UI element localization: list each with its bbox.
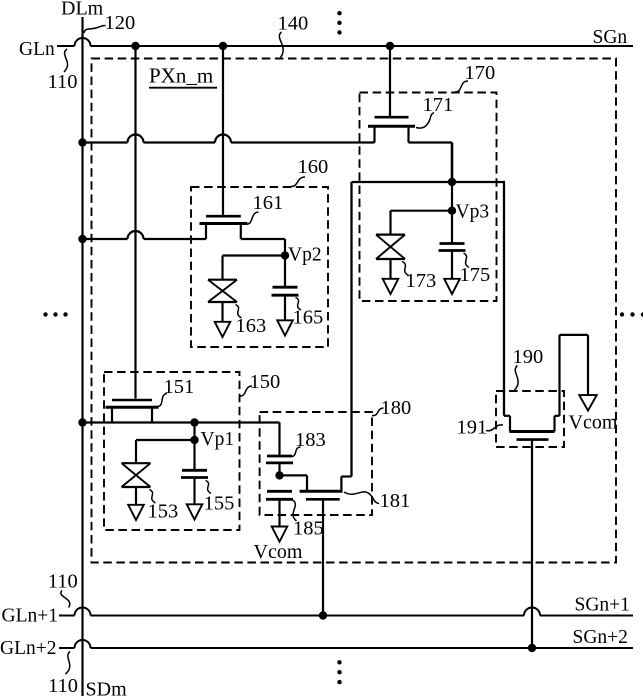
svg-text:110: 110 bbox=[48, 675, 78, 696]
svg-text:153: 153 bbox=[148, 501, 179, 523]
svg-text:Vcom: Vcom bbox=[569, 412, 618, 434]
svg-text:110: 110 bbox=[48, 71, 78, 93]
svg-text:161: 161 bbox=[253, 192, 284, 214]
svg-text:151: 151 bbox=[164, 376, 195, 398]
svg-text:183: 183 bbox=[295, 429, 326, 451]
svg-text:175: 175 bbox=[460, 264, 491, 286]
svg-text:180: 180 bbox=[381, 397, 412, 419]
svg-text:Vp2: Vp2 bbox=[288, 245, 322, 266]
svg-text:Vp3: Vp3 bbox=[456, 202, 490, 223]
svg-text:SGn: SGn bbox=[593, 27, 628, 48]
svg-text:GLn+1: GLn+1 bbox=[2, 606, 59, 627]
svg-text:163: 163 bbox=[236, 315, 267, 337]
svg-text:Vcom: Vcom bbox=[254, 541, 303, 563]
svg-text:110: 110 bbox=[48, 571, 78, 593]
svg-text:190: 190 bbox=[513, 346, 544, 368]
svg-text:120: 120 bbox=[105, 12, 136, 34]
svg-text:181: 181 bbox=[380, 490, 411, 512]
svg-text:155: 155 bbox=[204, 493, 235, 515]
svg-text:170: 170 bbox=[465, 62, 496, 84]
svg-text:SGn+1: SGn+1 bbox=[575, 595, 630, 616]
svg-text:PXn_m: PXn_m bbox=[149, 64, 213, 88]
svg-text:171: 171 bbox=[423, 94, 454, 116]
svg-text:160: 160 bbox=[298, 156, 329, 178]
svg-text:GLn+2: GLn+2 bbox=[0, 638, 57, 659]
svg-text:GLn: GLn bbox=[19, 39, 55, 60]
svg-text:191: 191 bbox=[457, 417, 488, 439]
svg-text:Vp1: Vp1 bbox=[201, 429, 235, 450]
svg-text:SGn+2: SGn+2 bbox=[573, 627, 628, 648]
svg-text:173: 173 bbox=[406, 270, 437, 292]
svg-text:185: 185 bbox=[293, 518, 324, 540]
svg-text:140: 140 bbox=[278, 13, 309, 35]
svg-text:DLm: DLm bbox=[61, 0, 104, 20]
svg-text:SDm: SDm bbox=[86, 679, 128, 696]
svg-text:165: 165 bbox=[293, 307, 324, 329]
svg-text:150: 150 bbox=[250, 371, 281, 393]
